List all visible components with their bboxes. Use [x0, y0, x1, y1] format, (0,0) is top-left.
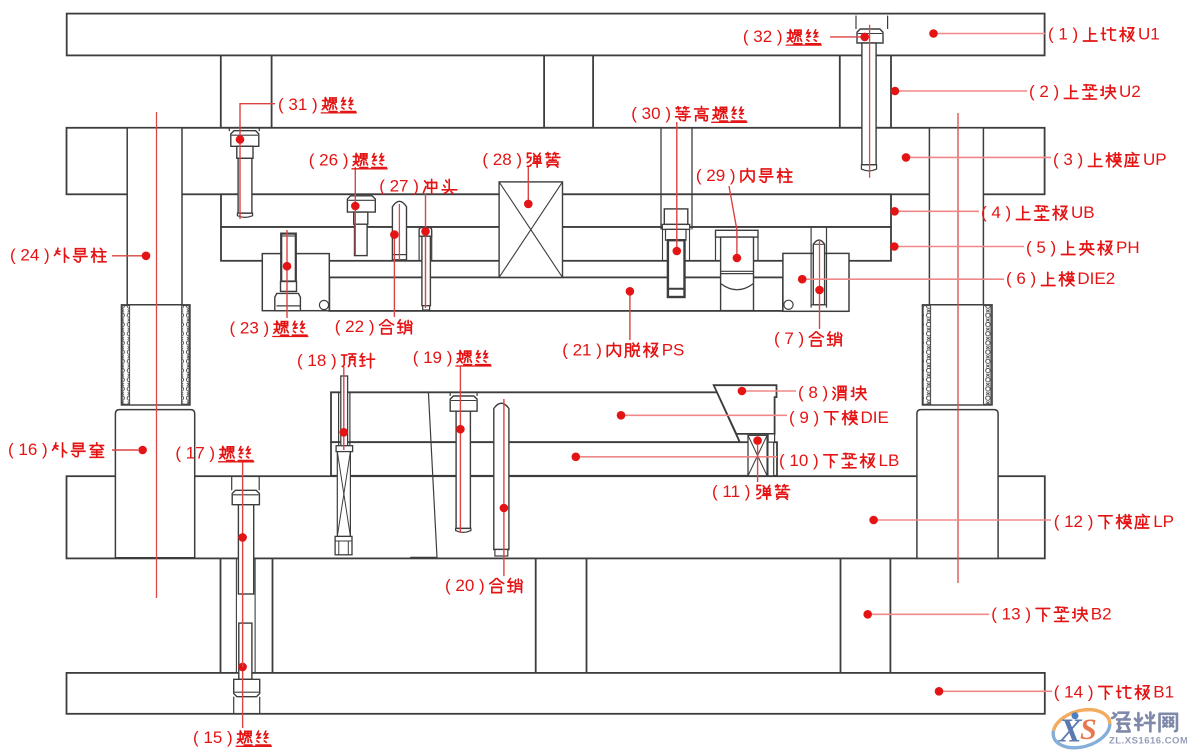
label (27) 冲头 [379, 177, 457, 308]
svg-text:( 21 ): ( 21 ) [562, 340, 602, 359]
label (10) 下垫板LB [572, 451, 900, 470]
label (17) 螺丝 [175, 444, 254, 667]
shoulder screw 30 等高螺丝 [661, 128, 692, 297]
svg-text:U2: U2 [1119, 82, 1141, 101]
svg-text:DIE: DIE [861, 408, 889, 427]
screw 26 (UB to PH) [347, 196, 375, 256]
label (1) 上托板U1 [929, 25, 1160, 44]
tapered slug-drop hole (below punch 27) [410, 392, 437, 557]
spacer B2 right [841, 558, 891, 673]
plate LP lower die base (12) 下模座 [67, 476, 1045, 558]
screw 31 (UP to UB) [229, 128, 259, 218]
spring (28) 弹簧 pocket box [499, 182, 562, 278]
inner guide post 29 内导柱 [716, 230, 759, 310]
ejector seat block [335, 536, 352, 554]
svg-text:UB: UB [1071, 203, 1095, 222]
svg-text:( 10 ): ( 10 ) [779, 451, 819, 470]
centerline pin 22 [398, 204, 400, 260]
spacer U2 left (2) 上垫块 [221, 55, 272, 127]
centerline left guide post [156, 112, 158, 598]
dowel pin 7 合销 (in DIE2) [811, 227, 826, 308]
label (12) 下模座LP [869, 512, 1174, 531]
svg-text:( 14 ): ( 14 ) [1054, 683, 1094, 702]
retainer strip right of spring 11 [768, 442, 774, 476]
outer guide post right [929, 128, 983, 305]
screw 19 (die to LP) [450, 392, 477, 532]
label (32) 螺丝 [743, 27, 869, 46]
spacer U2 right [840, 55, 891, 127]
label (19) 螺丝 [413, 348, 492, 533]
upper die insert DIE2 (6) 上模 [783, 253, 849, 311]
svg-text:PH: PH [1116, 238, 1140, 257]
svg-text:( 5 ): ( 5 ) [1026, 238, 1056, 257]
label (7) 合销 [774, 286, 842, 349]
label (22) 合销 [335, 230, 412, 336]
label (5) 上夹板PH [890, 238, 1140, 257]
plate U1 top retainer (1) 上托板 [67, 14, 1045, 56]
slider 8 滑块 [714, 385, 777, 442]
svg-text:( 16 ): ( 16 ) [8, 440, 48, 459]
svg-text:( 3 ): ( 3 ) [1053, 150, 1083, 169]
label (30) 等高螺丝 [631, 104, 747, 255]
svg-text:( 4 ): ( 4 ) [981, 203, 1011, 222]
svg-text:( 20 ): ( 20 ) [445, 576, 485, 595]
svg-text:LB: LB [879, 451, 900, 470]
svg-text:( 22 ): ( 22 ) [335, 317, 375, 336]
label (16) 外导套 [8, 440, 147, 459]
svg-text:PS: PS [662, 340, 685, 359]
label (26) 螺丝 [309, 151, 388, 255]
dowel pin 20 合销 [494, 403, 509, 556]
label (31) 螺丝 [236, 95, 357, 219]
outer guide bushing right hatched sleeve [922, 305, 992, 405]
centerline screw 32 [869, 25, 871, 178]
svg-text:U1: U1 [1138, 25, 1160, 44]
label (13) 下垫块B2 [863, 605, 1111, 624]
svg-text:( 26 ): ( 26 ) [309, 151, 349, 170]
label (29) 内导柱 [696, 166, 792, 262]
plate B1 bottom retainer (14) 下托板 [67, 673, 1045, 714]
outer guide post left (24) 外导柱 [127, 128, 182, 305]
svg-text:( 2 ): ( 2 ) [1029, 82, 1059, 101]
screw 15 (B1 to B2, inverted) [234, 623, 260, 714]
label (6) 上模DIE2 [798, 269, 1115, 288]
label (15) 螺丝 [193, 663, 272, 748]
outer guide bushing housing left (16) 外导套 [115, 410, 194, 558]
svg-text:( 11 ): ( 11 ) [712, 482, 750, 501]
ejector spring (X) under pin 18 [337, 452, 350, 537]
svg-text:( 6 ): ( 6 ) [1006, 269, 1036, 288]
svg-text:( 8 ): ( 8 ) [798, 383, 828, 402]
label (14) 下托板B1 [935, 683, 1174, 702]
small circle detail DIE2 [784, 300, 793, 309]
plate UP upper die base (3) 上模座 [67, 128, 1045, 195]
svg-text:( 28 ): ( 28 ) [482, 150, 522, 169]
centerline pin 7 [819, 240, 821, 296]
svg-text:B1: B1 [1153, 683, 1174, 702]
spring 11 弹簧 (under slider) [748, 435, 767, 476]
svg-text:( 1 ): ( 1 ) [1048, 25, 1078, 44]
svg-text:( 30 ): ( 30 ) [631, 104, 671, 123]
svg-text:( 18 ): ( 18 ) [297, 351, 337, 370]
punch 27 冲头 [419, 228, 432, 311]
label (18) 顶针 [297, 351, 375, 450]
label (20) 合销 [445, 399, 522, 595]
spacer B2 middle [536, 558, 587, 673]
svg-text:( 27 ): ( 27 ) [379, 177, 419, 196]
svg-text:( 19 ): ( 19 ) [413, 348, 453, 367]
label (23) 螺丝 [230, 230, 309, 337]
label (3) 上模座UP [902, 150, 1167, 169]
label (4) 上垫板UB [890, 203, 1094, 222]
label (28) 弹簧 [482, 150, 560, 208]
svg-text:( 29 ): ( 29 ) [696, 166, 736, 185]
slider stem piece [768, 434, 775, 442]
svg-text:( 12 ): ( 12 ) [1054, 512, 1094, 531]
stripper block left (with screw 23) [262, 254, 329, 311]
watermark logo 资料网 [1049, 703, 1187, 753]
plate PS inner stripper (21) 内脱板 [329, 277, 783, 311]
svg-text:( 23 ): ( 23 ) [230, 318, 270, 337]
centerline right guide post [957, 113, 959, 583]
plate LB lower backing (10) 下垫板 [331, 442, 777, 476]
svg-text:B2: B2 [1091, 605, 1112, 624]
svg-text:( 15 ): ( 15 ) [193, 728, 233, 747]
spacer U2 middle [544, 55, 593, 127]
svg-text:LP: LP [1153, 512, 1174, 531]
screw 17 (LP to B2) [232, 476, 260, 594]
plate PH upper clamp (5) 上夹板 [221, 227, 891, 261]
svg-text:( 24 ): ( 24 ) [10, 246, 50, 265]
label (24) 外导柱 [10, 246, 150, 265]
svg-text:DIE2: DIE2 [1077, 269, 1115, 288]
ejector pin 18 顶针 [336, 376, 353, 452]
svg-text:S: S [1080, 713, 1097, 746]
svg-text:ZL.XS1616.COM: ZL.XS1616.COM [1109, 736, 1187, 747]
screw 23 (stripper block, inverted) [275, 234, 301, 311]
outer guide bushing housing right [917, 410, 998, 559]
svg-text:( 9 ): ( 9 ) [789, 408, 819, 427]
label (9) 下模DIE [617, 408, 889, 427]
svg-text:( 17 ): ( 17 ) [175, 444, 215, 463]
spacer B2 left (13) 下垫块 [221, 558, 273, 673]
svg-text:( 32 ): ( 32 ) [743, 27, 783, 46]
svg-text:( 31 ): ( 31 ) [278, 95, 318, 114]
screw 32 (U1 to UP) [856, 16, 888, 171]
plate UB upper backing (4) 上垫板 [221, 194, 891, 227]
svg-text:UP: UP [1143, 150, 1167, 169]
svg-text:( 13 ): ( 13 ) [991, 605, 1031, 624]
svg-text:( 7 ): ( 7 ) [774, 329, 804, 348]
label (21) 内脱板PS [562, 287, 684, 359]
dowel pin 22 合销 [392, 201, 406, 260]
label (2) 上垫块U2 [891, 82, 1141, 101]
label (11) 弹簧 [712, 436, 790, 501]
small circle detail left block [319, 300, 328, 309]
outer guide bushing left hatched sleeve [121, 305, 190, 405]
label (8) 滑块 [738, 383, 867, 402]
lower die DIE (9) 下模 [331, 392, 740, 442]
